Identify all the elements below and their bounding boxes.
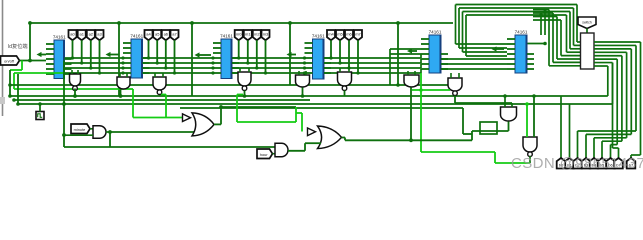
wire tunnel drop m2 — [256, 40, 258, 68]
svg-text:minute: minute — [74, 127, 86, 132]
wire jog U5 — [420, 59, 422, 63]
wire preset loop — [463, 11, 571, 13]
wire bus m0 — [324, 57, 421, 59]
junction mesh — [211, 61, 214, 64]
wire G8 out — [454, 96, 456, 104]
junction mesh drop — [164, 66, 167, 69]
tunnel m4 — [327, 30, 335, 40]
wire U6 out to feed — [528, 43, 546, 45]
arrow net A1 — [37, 52, 47, 57]
wire bus y96 — [10, 95, 561, 97]
wire bus a2 — [143, 67, 214, 69]
junction on/off — [28, 59, 32, 63]
wire lime riser — [494, 152, 496, 163]
NAND gate G4 — [238, 72, 251, 90]
wire G12 out — [288, 150, 305, 152]
wire bus m3 — [232, 72, 305, 74]
tunnel m2 — [253, 30, 261, 40]
svg-text:74161: 74161 — [53, 35, 66, 40]
svg-text:a3: a3 — [97, 32, 102, 37]
wire OR1 out — [214, 123, 221, 125]
junction mesh drop — [356, 71, 359, 74]
wire register feed — [553, 61, 581, 63]
NAND gate G1 — [70, 74, 81, 90]
junction mesh drop — [89, 66, 92, 69]
wire register output — [594, 44, 636, 46]
wire lime near U5 — [412, 89, 450, 91]
wire lime G4 out — [237, 94, 243, 96]
wire G8 to G9 — [455, 102, 512, 104]
svg-text:a7: a7 — [172, 32, 177, 37]
wire G6 out — [344, 91, 346, 97]
wire lime to buffer — [133, 117, 183, 119]
wire preset loop left drop — [458, 8, 460, 48]
wire on/off out — [20, 60, 47, 62]
wire U5 feed — [390, 53, 421, 55]
svg-text:74161: 74161 — [429, 30, 442, 35]
wire preset loop right drop — [576, 5, 578, 43]
wire register output — [594, 65, 608, 67]
AND gate G12 — [275, 143, 288, 157]
wire U5 feed drop — [389, 49, 391, 85]
junction mesh drop — [329, 56, 332, 59]
chip U4 74161 minutes tens — [305, 34, 332, 80]
wire register feed top — [533, 16, 557, 18]
tunnel m7 — [354, 30, 362, 40]
junction G4 — [243, 94, 247, 98]
wire lime run y122 — [237, 121, 296, 123]
wire jog U5 — [420, 64, 422, 68]
wire G6 in — [339, 68, 341, 72]
wire register feed top — [533, 9, 549, 11]
wire register output — [594, 58, 617, 60]
svg-text:a6: a6 — [164, 32, 169, 37]
wire bus a3 — [143, 72, 214, 74]
wire preset into U6 — [459, 47, 507, 49]
wire fan vertical — [635, 45, 637, 131]
tunnel b6 — [606, 158, 615, 169]
wire G7 out — [410, 88, 412, 141]
junction mesh drop — [264, 71, 267, 74]
AND gate G2 — [117, 77, 130, 89]
tunnel h7 — [627, 158, 636, 169]
wire drop — [289, 23, 291, 85]
junction G10 in2 — [532, 94, 536, 98]
wire G2 out — [120, 90, 122, 97]
svg-text:on/off: on/off — [4, 59, 15, 64]
wire tunnel drop a2 — [90, 40, 92, 68]
tunnel a2 — [87, 30, 95, 40]
wire G8 in — [450, 73, 452, 78]
junction mesh — [121, 61, 124, 64]
junction lime U5 — [419, 88, 423, 92]
junction mesh — [211, 66, 214, 69]
wire G3 in — [162, 73, 164, 77]
tunnel b2 — [573, 158, 582, 169]
junction top bus — [396, 21, 400, 25]
junction mesh drop — [156, 61, 159, 64]
svg-text:m2: m2 — [254, 32, 260, 37]
tunnel hour — [257, 149, 273, 159]
wire fan vertical — [621, 56, 623, 141]
OR gate OR1 — [192, 113, 214, 136]
junction mesh drop — [246, 61, 249, 64]
wire lime jog right — [296, 112, 302, 114]
wire bus y100 — [14, 99, 310, 101]
junction mesh — [303, 71, 306, 74]
AND gate G11 — [93, 126, 106, 139]
tunnel m0 — [235, 30, 243, 40]
wire bus y104 — [18, 103, 570, 105]
wire G6 in — [348, 68, 350, 72]
wire bus a0 — [143, 57, 214, 59]
wire jog U5 — [420, 54, 422, 58]
wire tunnel drop m3 — [265, 40, 267, 73]
wire G3 in — [154, 73, 156, 77]
wire preset loop — [456, 4, 578, 6]
junction mesh drop — [237, 56, 240, 59]
wire tunnel drop a1 — [156, 40, 158, 63]
AND gate G5 — [296, 75, 310, 87]
tunnel a5 — [153, 30, 161, 40]
junction mesh — [303, 56, 306, 59]
wire register feed top — [533, 12, 553, 14]
wire bus96 right — [561, 95, 608, 97]
wire bus104 right — [570, 103, 613, 105]
wire preset into U6 — [463, 51, 508, 53]
wire staircase — [594, 137, 627, 139]
junction loop drop — [539, 13, 542, 16]
wire tunnel drop a0 — [148, 40, 150, 58]
NAND gate G3 — [153, 77, 166, 94]
wire loop rectangle — [480, 122, 497, 134]
scrollbar thumb — [0, 97, 5, 104]
wire tunnel drop m0 — [330, 40, 332, 58]
wire G9 in — [504, 96, 506, 107]
wire tunnel drop a1 — [81, 40, 83, 63]
wire to tunnel — [618, 148, 620, 161]
wire G4 in — [239, 68, 241, 72]
wire tunnel drop m2 — [348, 40, 350, 68]
junction mesh — [121, 66, 124, 69]
wire to tunnel — [610, 145, 612, 161]
junction mesh drop — [80, 61, 83, 64]
wire bus m1 — [324, 62, 421, 64]
NAND gate G10 — [523, 137, 537, 157]
wire fan to bus104 — [612, 63, 614, 104]
arrow net A4 — [287, 52, 297, 57]
arrow net A5 — [407, 48, 417, 53]
wire to tunnel — [585, 134, 587, 161]
svg-text:a0: a0 — [70, 32, 75, 37]
wire OR2 out — [342, 137, 346, 139]
wire fan vertical — [630, 49, 632, 135]
wire tunnel drop m1 — [247, 40, 249, 63]
wire enable high run — [14, 72, 64, 74]
wire G1 in — [71, 70, 73, 74]
tunnel m6 — [345, 30, 353, 40]
svg-text:CSDN @98651437: CSDN @98651437 — [511, 155, 643, 172]
junction mesh drop — [98, 71, 101, 74]
wire tunnel drop m0 — [238, 40, 240, 58]
wire register feed — [561, 55, 581, 57]
tunnel a7 — [171, 30, 179, 40]
wire staircase — [578, 130, 637, 132]
wire register output — [594, 48, 631, 50]
wire fan to bus96 — [607, 66, 609, 96]
tunnel minute — [71, 124, 90, 134]
wire drop 463 — [462, 108, 464, 134]
wire G4 out — [244, 91, 246, 97]
wire enable high — [21, 61, 23, 71]
clock source CLK — [36, 112, 44, 120]
wire G1 out — [74, 89, 76, 97]
svg-text:a4: a4 — [146, 32, 151, 37]
wire preset loop left drop — [455, 5, 457, 45]
wire lime rise 296 — [295, 113, 297, 122]
wire OR2 out long — [345, 139, 472, 141]
junction and input — [62, 133, 66, 137]
wire clock column — [63, 61, 65, 148]
arrow net A6 — [492, 46, 505, 51]
wire bus a1 — [65, 62, 124, 64]
wire U6 top feed — [540, 15, 542, 35]
svg-text:m6: m6 — [346, 32, 352, 37]
tunnel a3 — [96, 30, 104, 40]
arrow net A3 — [195, 52, 212, 57]
chip U6 74161 hours tens — [507, 30, 534, 74]
wire G10 in dark — [533, 96, 535, 137]
chip U3 74161 minutes ones — [213, 34, 239, 79]
wire bus y85 — [10, 84, 455, 86]
tunnel b3 — [582, 158, 591, 169]
AND gate G9 — [501, 107, 517, 121]
wire bus a3 — [65, 72, 124, 74]
wire to tunnel b0 — [560, 96, 562, 161]
junction clock column — [62, 102, 66, 106]
wire U6 top feed2 — [544, 11, 546, 35]
wire top bus — [30, 22, 453, 24]
wire tunnel drop a2 — [165, 40, 167, 68]
wire U5-U6 mesh — [442, 63, 508, 65]
wire tunnel drop a0 — [72, 40, 74, 58]
wire fan vertical — [612, 63, 614, 148]
tunnel on/off — [1, 56, 20, 65]
chip U1 74161 seconds ones — [46, 35, 72, 79]
wire G10 in lime — [526, 104, 528, 137]
tunnel a1 — [78, 30, 86, 40]
junction mesh — [303, 61, 306, 64]
chip U2 74161 seconds tens — [123, 34, 150, 79]
wire register feed — [557, 58, 581, 60]
wire preset loop left drop — [465, 15, 467, 56]
junction mesh — [121, 56, 124, 59]
wire G4 in — [248, 68, 250, 72]
wire register output — [594, 62, 613, 64]
wire register output — [594, 51, 627, 53]
svg-text:m7: m7 — [355, 32, 361, 37]
junction mesh drop — [71, 56, 74, 59]
wire bus m3 — [324, 72, 421, 74]
wire bus y108 — [180, 107, 463, 109]
wire G5 in — [298, 71, 300, 75]
svg-text:switch: switch — [582, 20, 592, 24]
svg-text:m0: m0 — [236, 32, 242, 37]
wire hour enable run — [64, 146, 275, 148]
wire fan vertical — [616, 59, 618, 144]
svg-text:m4: m4 — [328, 32, 334, 37]
wire tunnel drop a3 — [99, 40, 101, 73]
wire register feed vertical — [552, 13, 554, 62]
junction mesh drop — [173, 71, 176, 74]
wire G3 out — [161, 94, 166, 96]
wire preset loop — [466, 14, 567, 16]
wire staircase — [611, 144, 618, 146]
tunnel m5 — [336, 30, 344, 40]
junction OR2 out — [409, 138, 413, 142]
wire staircase — [613, 147, 619, 149]
wire left ladder2 — [17, 74, 19, 104]
wire bus m0 — [232, 57, 305, 59]
wire bus m2 — [324, 67, 421, 69]
AND gate G7 — [404, 75, 419, 87]
wire to tunnel — [601, 141, 603, 161]
wire G9 out — [508, 122, 510, 132]
tunnel m1 — [244, 30, 252, 40]
tunnel a4 — [145, 30, 153, 40]
wire drop — [191, 23, 193, 96]
junction mesh drop — [255, 66, 258, 69]
wire tunnel drop m3 — [357, 40, 359, 73]
tunnel a0 — [69, 30, 77, 40]
wire preset loop right drop — [573, 8, 575, 45]
junction G2 — [119, 94, 123, 98]
tunnel switch — [578, 17, 596, 29]
wire OR1 out up — [220, 107, 222, 124]
wire register output — [594, 41, 641, 43]
wire G2 in — [126, 73, 128, 77]
wire preset into U6 — [456, 43, 508, 45]
wire preset loop right drop — [566, 15, 568, 52]
wire bus m2 — [232, 67, 305, 69]
wire into register — [574, 44, 581, 46]
junction G11 out — [108, 130, 112, 134]
wire fan vertical — [626, 52, 628, 138]
wire register feed vertical — [556, 17, 558, 60]
wire lime drop — [132, 89, 134, 118]
wire G8 in — [458, 73, 460, 78]
wire G12 out up — [304, 143, 306, 151]
wire into register — [577, 41, 581, 43]
wire drop — [118, 23, 120, 96]
OR gate OR2 — [318, 126, 342, 149]
junction top bus — [28, 21, 32, 25]
wire tunnel drop m1 — [339, 40, 341, 63]
svg-text:hour: hour — [260, 152, 268, 157]
tunnel b7 — [614, 158, 623, 169]
tunnel a6 — [162, 30, 170, 40]
wire minute to G11 — [90, 128, 93, 130]
junction mesh drop — [347, 66, 350, 69]
wire G5 out — [302, 88, 304, 97]
wire staircase — [586, 133, 631, 135]
wire OR2 out bend — [344, 138, 346, 141]
buffer B2 — [308, 128, 316, 136]
svg-text:74161: 74161 — [515, 30, 528, 35]
wire OR2 lower in — [305, 142, 321, 144]
wire G10 out lime — [495, 162, 530, 164]
wire OR1 out run — [221, 106, 296, 108]
svg-text:74161: 74161 — [130, 34, 143, 39]
junction G1 — [73, 94, 77, 98]
wire G5 in — [305, 71, 307, 75]
chip U5 74161 hours ones — [421, 30, 448, 74]
NAND gate G8 — [448, 78, 462, 95]
tunnel b5 — [598, 158, 607, 169]
wire enable drop — [13, 73, 15, 89]
svg-text:a1: a1 — [79, 32, 84, 37]
wire lime bottom run — [421, 151, 495, 153]
wire G10 out — [529, 156, 531, 163]
arrow net A2 — [106, 52, 120, 57]
tunnel b0 — [557, 158, 566, 169]
wire elbow to h7 — [631, 154, 641, 156]
junction U6 feed — [543, 42, 547, 46]
tunnel b4 — [590, 158, 599, 169]
wire drop — [29, 23, 31, 61]
wire G3 out drop — [165, 95, 167, 118]
junction OR1 — [219, 105, 223, 109]
wire to tunnel — [577, 131, 579, 161]
wire U5 feed — [390, 48, 421, 50]
wire register feed vertical — [548, 10, 550, 66]
wire preset loop left drop — [462, 12, 464, 53]
junction mesh drop — [338, 61, 341, 64]
wire bus a2 — [65, 67, 124, 69]
wire to buffer B2 — [301, 113, 303, 132]
wire enable long run — [14, 88, 133, 90]
svg-text:a5: a5 — [155, 32, 160, 37]
wire to tunnel h7 — [630, 155, 632, 161]
wire G1 in — [77, 70, 79, 74]
junction mesh drop — [147, 56, 150, 59]
wire bus a0 — [65, 57, 124, 59]
tunnel b1 — [565, 158, 574, 169]
wire clock up — [39, 104, 41, 112]
wire elbow 463 — [463, 133, 472, 135]
NAND gate G6 — [338, 72, 352, 90]
wire G9 in2 — [511, 103, 513, 107]
wire register output — [594, 55, 622, 57]
wire left ladder — [9, 70, 11, 96]
wire switch to register — [586, 29, 588, 34]
svg-text:74161: 74161 — [220, 34, 233, 39]
wire hour to G12 — [273, 153, 276, 155]
wire G7 in — [414, 71, 416, 75]
wire register feed — [549, 65, 581, 67]
wire into register — [570, 48, 581, 50]
wire to tunnel — [593, 138, 595, 161]
wire preset loop — [459, 7, 574, 9]
wire register feed vertical — [560, 20, 562, 56]
wire lime tall vertical — [420, 73, 422, 152]
junction G9 in — [503, 94, 507, 98]
svg-text:m3: m3 — [263, 32, 269, 37]
wire staircase — [602, 140, 622, 142]
junction — [8, 94, 12, 98]
junction — [16, 102, 20, 106]
window border left edge — [2, 0, 4, 116]
